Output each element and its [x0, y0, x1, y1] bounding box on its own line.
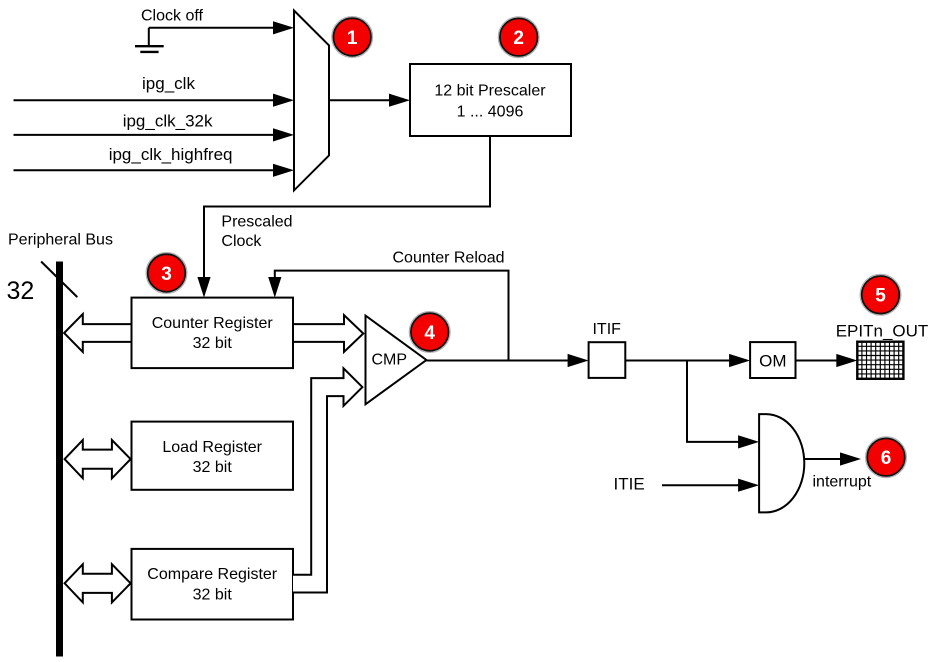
- svg-text:12 bit Prescaler: 12 bit Prescaler: [434, 83, 546, 100]
- compare register block: [132, 549, 294, 620]
- svg-text:ITIE: ITIE: [614, 475, 645, 494]
- bus arrow counter register to peripheral bus: [64, 314, 131, 352]
- ground: [135, 28, 164, 52]
- svg-text:Compare Register: Compare Register: [147, 566, 278, 583]
- svg-text:CMP: CMP: [372, 352, 408, 369]
- svg-text:Load Register: Load Register: [162, 439, 262, 456]
- badge 3: [146, 253, 187, 294]
- svg-text:1: 1: [347, 28, 358, 49]
- wire CMP output to ITIF: [426, 354, 588, 367]
- counter register block: [132, 298, 294, 369]
- bus arrow compare register to CMP: [293, 368, 362, 592]
- svg-text:Peripheral Bus: Peripheral Bus: [8, 232, 113, 249]
- wire ipg_clk_highfreq into mux: [14, 164, 295, 177]
- wire ITIF to OM: [625, 354, 750, 367]
- bus double arrow compare register and peripheral bus: [65, 564, 131, 602]
- bus arrow counter register to CMP: [293, 315, 363, 352]
- svg-text:Clock: Clock: [221, 233, 262, 250]
- load register block: [132, 422, 294, 490]
- badge 5: [860, 274, 901, 315]
- svg-text:32 bit: 32 bit: [193, 335, 233, 352]
- wire OM to pad: [796, 354, 858, 367]
- AND gate interrupt: [759, 414, 804, 512]
- wire junction down to AND gate: [687, 361, 759, 449]
- mux clock selector: [294, 11, 329, 191]
- OM output mode block: [750, 342, 795, 378]
- svg-text:5: 5: [875, 286, 886, 307]
- svg-text:Counter Reload: Counter Reload: [393, 250, 505, 267]
- wire clock off to mux: [149, 27, 275, 29]
- peripheral bus bar: [56, 262, 63, 657]
- arrowhead clock off into mux: [273, 21, 294, 34]
- badge 2: [498, 17, 539, 58]
- wire AND gate output interrupt: [804, 452, 861, 465]
- svg-text:2: 2: [513, 28, 524, 49]
- wire mux to prescaler: [329, 94, 410, 107]
- svg-text:Counter Register: Counter Register: [152, 315, 274, 332]
- svg-text:interrupt: interrupt: [813, 473, 872, 490]
- svg-text:ipg_clk_highfreq: ipg_clk_highfreq: [109, 145, 233, 164]
- pad EPITn_OUT: [857, 342, 903, 379]
- badge 1: [332, 17, 373, 58]
- svg-text:OM: OM: [759, 352, 786, 371]
- wire counter reload feedback: [268, 271, 508, 361]
- badge 4: [409, 312, 450, 353]
- wire ipg_clk_32k into mux: [14, 128, 295, 141]
- svg-text:ipg_clk: ipg_clk: [142, 74, 195, 93]
- wire ITIE to AND gate: [662, 479, 759, 492]
- svg-text:3: 3: [161, 264, 172, 285]
- label Prescaled Clock: [221, 213, 292, 250]
- svg-text:32 bit: 32 bit: [193, 459, 233, 476]
- svg-text:1 ... 4096: 1 ... 4096: [457, 104, 524, 121]
- svg-text:ITIF: ITIF: [592, 321, 621, 338]
- svg-text:Prescaled: Prescaled: [221, 213, 292, 230]
- svg-text:EPITn_OUT: EPITn_OUT: [836, 321, 929, 340]
- svg-text:32 bit: 32 bit: [193, 586, 233, 603]
- wire ipg_clk into mux: [14, 94, 295, 107]
- wire prescaled clock (prescaler down, left, down into counter register): [197, 136, 490, 298]
- ITIF flag block: [589, 321, 626, 378]
- svg-text:ipg_clk_32k: ipg_clk_32k: [123, 112, 213, 131]
- bus slash: [41, 262, 77, 298]
- bus double arrow load register and peripheral bus: [65, 440, 131, 478]
- svg-text:6: 6: [881, 448, 892, 469]
- svg-text:32: 32: [7, 277, 35, 305]
- comparator CMP: [366, 316, 427, 405]
- badge 6: [866, 437, 907, 478]
- svg-text:Clock off: Clock off: [141, 8, 204, 25]
- svg-text:4: 4: [424, 323, 435, 344]
- prescaler block U2: [410, 64, 571, 136]
